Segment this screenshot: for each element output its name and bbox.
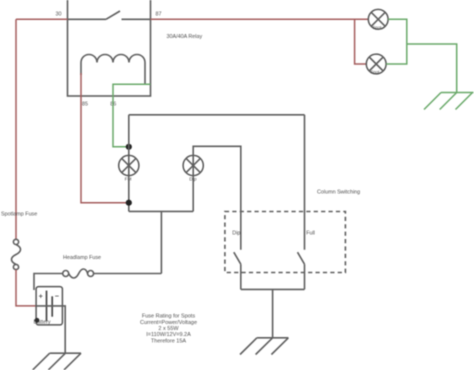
- battery BT1: [34, 287, 63, 326]
- wire green tee to ground: [407, 44, 457, 93]
- svg-text:85: 85: [82, 101, 88, 107]
- wire riser to headlamp fuse: [160, 211, 162, 273]
- svg-text:Headlamp Fuse: Headlamp Fuse: [63, 255, 101, 261]
- svg-text:Spot: Spot: [371, 70, 381, 75]
- svg-text:Spot: Spot: [373, 25, 383, 30]
- lamp FM: [119, 155, 139, 182]
- svg-text:I=110W/12V=9.2A: I=110W/12V=9.2A: [146, 332, 191, 338]
- lamp Spot 2 (lower): [366, 54, 386, 74]
- svg-text:Column Switching: Column Switching: [317, 189, 360, 195]
- svg-text:87: 87: [156, 11, 162, 17]
- switch Dip blade: [234, 252, 241, 264]
- lamp Spot 1 (upper): [368, 9, 388, 29]
- svg-text:2 x 55W: 2 x 55W: [158, 326, 179, 332]
- wire Full switch bottom: [304, 264, 306, 289]
- wire red below spotlamp fuse to battery +: [16, 270, 36, 306]
- relay coil L1: [81, 55, 145, 85]
- wire lamps bottom rail: [129, 210, 193, 212]
- wire main vertical through FM lamp: [128, 115, 130, 156]
- wire switches common rail: [241, 288, 305, 290]
- svg-text:Current=Power/Voltage: Current=Power/Voltage: [140, 320, 197, 326]
- column switching dashed box: [225, 212, 346, 273]
- wire battery through-line and - to ground: [36, 306, 65, 353]
- wire Dip lamp bottom: [192, 176, 194, 212]
- wire red feed from node 30 to battery fuse (left rail): [16, 18, 68, 20]
- svg-text:Therefore 15A: Therefore 15A: [151, 338, 186, 344]
- wire FM lamp bottom: [128, 176, 130, 212]
- wire common rail to ground: [272, 289, 274, 337]
- svg-text:Spotlamp Fuse: Spotlamp Fuse: [1, 212, 37, 218]
- switch Full blade: [298, 252, 305, 264]
- svg-text:Full: Full: [306, 231, 315, 237]
- wire Dip switch bottom: [240, 264, 242, 289]
- node battery junction dot: [35, 318, 40, 323]
- relay switch blade: [106, 11, 120, 19]
- svg-text:−: −: [55, 291, 59, 300]
- wire red vertical left rail: [15, 19, 17, 239]
- relay switch contact (pins 30-87): [68, 18, 107, 20]
- wire red 87 to spot lamps: [151, 18, 369, 20]
- note: fuse rating text block: [140, 314, 197, 345]
- wire green pin 86 from coil: [113, 84, 151, 147]
- lamp Dip: [183, 155, 203, 182]
- ground (top right, green): [424, 93, 474, 110]
- ground (bottom left): [33, 353, 81, 370]
- wire horizontal to Full switch: [129, 114, 305, 116]
- relay K1 box: [68, 0, 151, 96]
- node A junction dot (86 net): [126, 144, 132, 150]
- wire headlamp fuse to lamps rail: [94, 273, 162, 275]
- node B junction dot (85 net): [126, 200, 132, 206]
- svg-text:Fuse Rating for Spots: Fuse Rating for Spots: [142, 314, 195, 320]
- relay switch fixed contact to 87: [122, 18, 151, 20]
- svg-text:Dip: Dip: [232, 231, 240, 237]
- wire red branch down to lower spot lamp: [355, 19, 367, 64]
- svg-text:30A/40A Relay: 30A/40A Relay: [167, 34, 203, 40]
- svg-text:+: +: [39, 292, 43, 301]
- wire Full switch drop: [304, 115, 306, 250]
- ground (bottom middle): [240, 338, 288, 355]
- wire green from upper spot lamp to ground: [386, 19, 407, 64]
- wire battery + to headlamp fuse: [34, 274, 63, 291]
- wire Dip lamp top to Dip switch: [193, 146, 241, 250]
- fuse F1 spotlamp (vertical): [12, 239, 21, 269]
- fuse F2 headlamp (horizontal): [63, 269, 94, 278]
- wire red pin 85 down from coil: [81, 73, 129, 203]
- svg-text:30: 30: [56, 11, 62, 17]
